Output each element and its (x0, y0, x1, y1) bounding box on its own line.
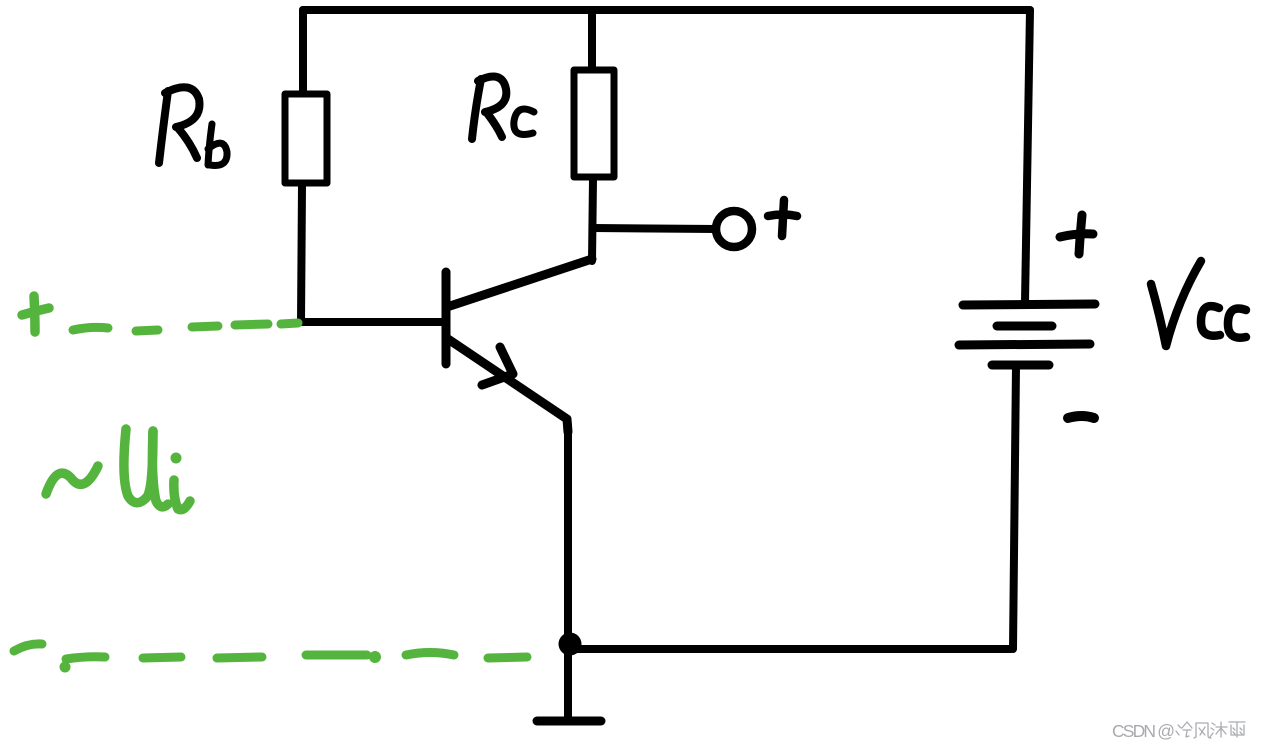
wire Rb top lead (299, 10, 307, 93)
dash-dot point b (green) (369, 651, 381, 663)
resistor Rb (285, 94, 327, 183)
dot of i (green) (171, 453, 182, 464)
label Rc (472, 77, 534, 140)
label + input polarity (green) (22, 296, 49, 332)
wire input bottom dash-dot (green) (14, 644, 527, 659)
resistor Rc (574, 70, 614, 177)
label ~Ui (green) (46, 429, 190, 510)
ground (537, 717, 601, 726)
transistor (NPN) (446, 259, 592, 432)
wire emitter down to ground (564, 425, 572, 718)
冷 (1176, 722, 1192, 737)
wire Rc top lead (588, 10, 596, 68)
雨 (1229, 722, 1245, 737)
wire top rail (303, 6, 1030, 14)
dash-dot point a (green) (60, 662, 71, 673)
wire collector to output terminal (593, 228, 716, 229)
node emitter/ground junction (559, 633, 582, 656)
label Rb (159, 87, 227, 165)
label Vcc (1151, 261, 1246, 346)
output terminal circle (716, 211, 752, 247)
wire Vcc positive lead (1025, 10, 1030, 302)
label + output polarity (768, 200, 797, 236)
wire input top dashed (green) (73, 323, 298, 331)
label - battery negative (1068, 416, 1094, 418)
wire bottom rail (570, 645, 1011, 653)
wire base lead (301, 318, 443, 326)
svg-text:CSDN @: CSDN @ (1112, 721, 1175, 741)
风 (1194, 723, 1211, 738)
battery Vcc (959, 304, 1095, 365)
label + battery positive (1060, 215, 1093, 254)
wire Rb bottom lead (301, 186, 302, 322)
沐 (1210, 722, 1227, 737)
wire Rc bottom lead to collector corner (592, 179, 593, 261)
wire Vcc negative lead (1013, 366, 1016, 649)
watermark CSDN @冷风沐雨 (1112, 721, 1245, 741)
